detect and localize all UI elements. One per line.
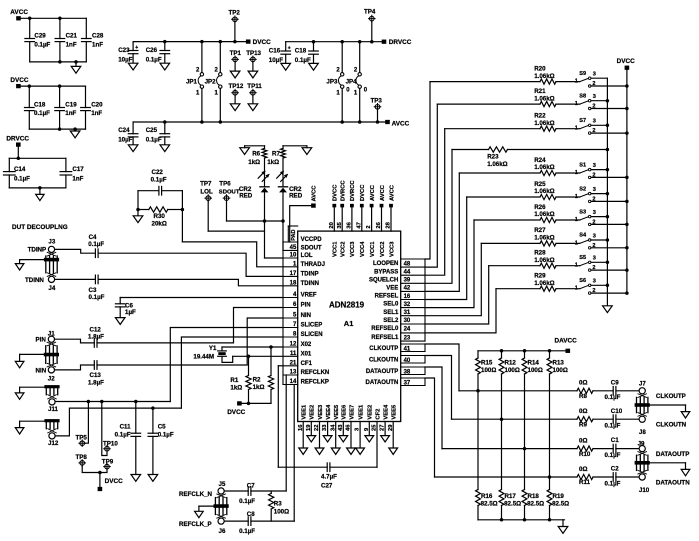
svg-text:0.1µF: 0.1µF (89, 294, 105, 301)
capacitor C6 1uF (119, 298, 121, 304)
ground (75, 62, 77, 67)
switch S2 (580, 194, 588, 197)
capacitor C18 0.1uF (313, 42, 315, 51)
wire bottom rail (30, 61, 87, 63)
svg-text:C28: C28 (92, 33, 104, 40)
resistor R26 1.06k (474, 219, 540, 221)
wire to connector J9 (616, 448, 639, 450)
svg-text:VCCPD: VCCPD (301, 237, 323, 243)
switch S8 (580, 101, 588, 104)
svg-text:0.1µF: 0.1µF (115, 432, 131, 439)
capacitor C18 0.1uF (28, 86, 30, 107)
svg-text:SEL1: SEL1 (383, 310, 399, 316)
wire DATAOUTN row (435, 476, 578, 478)
svg-text:17: 17 (290, 271, 297, 277)
svg-text:VCC2: VCC2 (380, 242, 386, 257)
wire pin fan to R26 (425, 220, 474, 308)
power flag DVRCC / pin 36 VCC3 (350, 204, 354, 208)
svg-text:0.1µF: 0.1µF (158, 432, 174, 439)
svg-text:1.06kΩ: 1.06kΩ (487, 161, 507, 168)
junction dots (28, 84, 32, 88)
svg-text:R28: R28 (534, 250, 546, 257)
svg-text:S3: S3 (579, 209, 586, 215)
svg-text:VCC3: VCC3 (389, 241, 395, 257)
wire DVCC rail (JP section) (133, 41, 246, 43)
resistor R21 1.06k (437, 103, 540, 105)
wire switch common rail to ground (606, 78, 608, 306)
svg-text:0.1µF: 0.1µF (239, 528, 255, 535)
resistor R11 0ohm (577, 474, 593, 479)
svg-text:S5: S5 (579, 255, 586, 261)
svg-text:X01: X01 (301, 351, 312, 357)
svg-text:1: 1 (575, 240, 578, 246)
svg-text:TDINN: TDINN (301, 281, 319, 287)
svg-text:J8: J8 (639, 429, 646, 436)
connector shield with ground (636, 397, 638, 412)
svg-text:3: 3 (593, 72, 596, 78)
capacitor C8 0.1uF (247, 517, 249, 526)
svg-text:1kΩ: 1kΩ (230, 384, 242, 391)
wire CLKOUTP from pin 41 (425, 344, 459, 391)
svg-text:SDOUT: SDOUT (301, 245, 322, 251)
svg-text:TP11: TP11 (247, 83, 262, 90)
svg-text:R6: R6 (252, 151, 260, 158)
svg-text:3: 3 (593, 233, 596, 239)
svg-text:DAVCC: DAVCC (555, 338, 578, 345)
wire X02 row (222, 346, 283, 348)
svg-text:20kΩ: 20kΩ (152, 221, 167, 228)
svg-text:R19: R19 (553, 493, 565, 500)
svg-text:C18: C18 (34, 102, 46, 109)
svg-text:J12: J12 (48, 440, 59, 447)
op-amp U1 ADN2819 body (298, 231, 401, 421)
svg-text:REFSEL1: REFSEL1 (371, 335, 399, 341)
jumper JP2 (219, 42, 221, 73)
ground (74, 129, 76, 131)
capacitor C5 0.1uF (152, 408, 154, 433)
svg-text:RED: RED (239, 193, 253, 200)
svg-text:C4: C4 (89, 234, 97, 241)
svg-text:VEE2: VEE2 (368, 405, 374, 420)
svg-text:DVCC: DVCC (227, 409, 245, 416)
svg-text:SEL0: SEL0 (383, 302, 399, 308)
svg-text:S8: S8 (579, 93, 586, 99)
svg-text:1.8µF: 1.8µF (88, 380, 104, 387)
resistor R13 100 (549, 351, 551, 358)
resistor R24 1.06k (459, 172, 540, 174)
svg-text:DVCC: DVCC (105, 478, 123, 485)
svg-text:0Ω: 0Ω (579, 437, 587, 444)
svg-text:VEE7: VEE7 (349, 405, 355, 420)
svg-text:R25: R25 (534, 181, 546, 188)
svg-text:AVCC: AVCC (392, 120, 410, 127)
wire pin fan to R22 (425, 129, 445, 276)
wire pin fan to R20 (425, 82, 430, 259)
switch S6 (580, 286, 588, 289)
switch S5 (580, 263, 588, 266)
svg-text:R22: R22 (534, 113, 546, 120)
svg-text:R3: R3 (274, 501, 282, 508)
svg-text:R27: R27 (534, 227, 546, 234)
power flag DVCC (decoupling block) (16, 84, 21, 88)
capacitor C21 1nF (59, 18, 61, 38)
svg-text:C3: C3 (89, 287, 97, 294)
svg-text:0.1µF: 0.1µF (239, 498, 255, 505)
resistor R18 82.5 (522, 490, 527, 506)
svg-text:1: 1 (575, 79, 578, 85)
capacitor C16 10uF (285, 42, 287, 51)
jumper JP3 (341, 42, 343, 73)
svg-text:R10: R10 (579, 451, 591, 458)
resistor R8 0ohm (577, 388, 593, 393)
svg-text:82.5Ω: 82.5Ω (481, 501, 498, 508)
connector J10 DATAOUTN (639, 474, 645, 480)
jumper JP1 (201, 42, 203, 73)
resistor R9 0ohm (577, 417, 593, 422)
svg-text:3: 3 (593, 256, 596, 262)
svg-text:REFCLK_N: REFCLK_N (179, 491, 213, 498)
svg-text:1.06kΩ: 1.06kΩ (534, 164, 554, 171)
resistor R2 1k (270, 347, 272, 376)
svg-text:DVCC: DVCC (10, 77, 28, 84)
svg-text:30: 30 (404, 318, 411, 324)
svg-text:C5: C5 (158, 424, 166, 431)
svg-text:23: 23 (404, 335, 411, 341)
svg-text:48: 48 (404, 261, 411, 267)
svg-text:VCC1: VCC1 (370, 241, 376, 257)
svg-text:C14: C14 (14, 166, 26, 173)
svg-text:100Ω: 100Ω (505, 367, 520, 374)
svg-text:R23: R23 (487, 154, 499, 161)
switch S4 (580, 240, 588, 243)
svg-text:100Ω: 100Ω (274, 509, 289, 516)
svg-text:DRVCC: DRVCC (389, 39, 412, 46)
svg-text:JP3: JP3 (326, 78, 338, 85)
svg-text:VCC4: VCC4 (360, 241, 366, 257)
switch S9 (580, 78, 588, 81)
svg-text:42: 42 (404, 286, 411, 292)
svg-text:J11: J11 (48, 406, 59, 413)
svg-text:SEL2: SEL2 (383, 318, 399, 324)
svg-text:C10: C10 (611, 408, 623, 415)
power flag DVCC (crystal bias) (242, 402, 271, 404)
svg-text:VCC1: VCC1 (333, 241, 339, 257)
wire DATAOUTN from pin 37 (425, 378, 435, 477)
svg-text:1nF: 1nF (65, 110, 76, 117)
svg-text:VEE4: VEE4 (326, 404, 332, 420)
wire AVCC to VCCPD (290, 206, 311, 242)
svg-text:1: 1 (575, 263, 578, 269)
svg-text:0Ω: 0Ω (579, 380, 587, 387)
svg-text:NIN: NIN (36, 367, 47, 374)
svg-text:R2: R2 (253, 377, 261, 384)
svg-text:C2: C2 (611, 466, 619, 473)
svg-text:1.06kΩ: 1.06kΩ (534, 95, 554, 102)
svg-text:S6: S6 (579, 278, 586, 284)
resistor R7 1k (282, 146, 284, 149)
svg-text:Y1: Y1 (209, 345, 217, 352)
svg-text:1nF: 1nF (91, 110, 102, 117)
svg-text:1: 1 (575, 217, 578, 223)
svg-text:10µF: 10µF (118, 56, 132, 63)
svg-text:REFSEL0: REFSEL0 (371, 326, 399, 332)
capacitor C14 0.1uF (8, 158, 10, 171)
svg-text:1µF: 1µF (125, 309, 136, 316)
svg-text:0.1µF: 0.1µF (146, 56, 162, 63)
wire C3 to TDINN pin (98, 279, 283, 285)
svg-text:C13: C13 (90, 372, 102, 379)
svg-text:2: 2 (592, 172, 595, 178)
resistor R15 100 (477, 351, 479, 358)
svg-text:DUT DECOUPLNG: DUT DECOUPLNG (12, 224, 68, 231)
svg-text:1: 1 (575, 101, 578, 107)
svg-text:0.1µF: 0.1µF (34, 110, 50, 117)
svg-text:0.1µF: 0.1µF (605, 423, 621, 430)
svg-text:20: 20 (329, 222, 335, 228)
wire pin fan to R28 (425, 266, 489, 324)
svg-text:C27: C27 (321, 482, 333, 489)
svg-text:10µF: 10µF (118, 136, 132, 143)
svg-text:45: 45 (290, 245, 297, 251)
svg-text:R14: R14 (528, 360, 540, 367)
wire right node to THRADJ (181, 191, 183, 242)
svg-text:R21: R21 (534, 88, 546, 95)
svg-text:DRVCC: DRVCC (6, 135, 29, 142)
svg-text:J9: J9 (638, 440, 645, 447)
svg-text:C22: C22 (152, 169, 164, 176)
resistor R30 20k (138, 209, 149, 211)
svg-text:J2: J2 (48, 375, 55, 382)
resistor R10 0ohm (577, 446, 593, 451)
svg-text:21: 21 (290, 360, 297, 366)
capacitor C20 1nF (85, 86, 87, 107)
svg-text:CLKOUTP: CLKOUTP (656, 393, 686, 400)
svg-text:VEE5: VEE5 (392, 404, 398, 420)
wire pin fan to R24 (425, 173, 459, 291)
wire AVCC rail (133, 121, 385, 123)
wire DRVCC stem (17, 147, 19, 159)
svg-text:TP4: TP4 (364, 9, 376, 16)
svg-text:R12: R12 (505, 360, 517, 367)
svg-text:CF1: CF1 (301, 361, 313, 367)
svg-text:1.06kΩ: 1.06kΩ (534, 120, 554, 127)
svg-text:DVCC: DVCC (617, 58, 635, 65)
svg-text:VEE: VEE (386, 286, 398, 292)
svg-text:VEE4: VEE4 (383, 404, 389, 420)
svg-text:82.5Ω: 82.5Ω (504, 501, 521, 508)
svg-text:DATAOUTP: DATAOUTP (366, 369, 398, 375)
svg-text:1.06kΩ: 1.06kΩ (534, 257, 554, 264)
svg-text:DVCC: DVCC (360, 184, 366, 201)
svg-text:TP6: TP6 (219, 180, 231, 187)
wire DATAOUTP from pin 38 (425, 367, 442, 449)
wire CF1 to C27 (278, 365, 283, 367)
svg-text:C7: C7 (247, 482, 255, 489)
svg-text:TP10: TP10 (103, 440, 118, 447)
wire J12 to SLICEN (55, 408, 181, 436)
svg-text:C24: C24 (118, 127, 130, 134)
svg-text:0.1µF: 0.1µF (151, 177, 167, 184)
svg-text:R24: R24 (534, 157, 546, 164)
svg-text:AVCC: AVCC (380, 184, 386, 201)
svg-text:2: 2 (366, 225, 372, 228)
svg-text:TP5: TP5 (76, 434, 88, 441)
svg-text:J6: J6 (219, 528, 226, 535)
left pin ladder (282, 242, 284, 385)
svg-text:39: 39 (404, 278, 411, 284)
power flag AVCC / pin 26 VCC2 (380, 204, 384, 208)
connector J12 with shield/ground (44, 419, 59, 422)
LED CR2 (LOL) red (258, 172, 268, 182)
svg-text:R16: R16 (481, 493, 493, 500)
svg-text:C23: C23 (118, 47, 130, 54)
svg-text:REFCLKP: REFCLKP (301, 380, 329, 386)
svg-text:DVRCC: DVRCC (341, 180, 347, 201)
svg-text:C25: C25 (146, 127, 158, 134)
connector shield J3/J4 with ground (45, 256, 47, 273)
svg-text:0.1µF: 0.1µF (605, 394, 621, 401)
svg-text:4.7µF: 4.7µF (321, 473, 337, 480)
resistor R3 100 (270, 491, 272, 493)
svg-text:SDOUT: SDOUT (219, 189, 240, 195)
svg-text:1.06kΩ: 1.06kΩ (534, 280, 554, 287)
svg-text:C16: C16 (269, 48, 281, 55)
capacitor C28 1nF (85, 18, 87, 38)
svg-text:16: 16 (404, 294, 411, 300)
svg-text:2: 2 (592, 265, 595, 271)
svg-text:LOL: LOL (301, 253, 313, 259)
wire J2 to C13 (55, 365, 95, 370)
svg-text:R8: R8 (579, 393, 587, 400)
svg-text:R15: R15 (481, 360, 493, 367)
svg-text:DATAOUTP: DATAOUTP (656, 451, 689, 458)
power flag AVCC / pin 2 VCC1 (370, 204, 374, 208)
capacitor C25 0.1uF (164, 122, 166, 134)
svg-text:0.1µF: 0.1µF (14, 175, 30, 182)
wire DVCC rail (21, 85, 86, 87)
svg-text:J10: J10 (639, 487, 650, 494)
svg-text:31: 31 (404, 310, 411, 316)
wire J11 to SLICEP (55, 401, 170, 403)
svg-text:VEE1: VEE1 (302, 404, 308, 420)
svg-text:2: 2 (592, 243, 595, 249)
wire X01 row (233, 355, 283, 357)
resistor R16 82.5 (476, 490, 481, 506)
capacitor C23 10uF (132, 42, 134, 51)
svg-text:12: 12 (290, 342, 297, 348)
connector J9 DATAOUTP (639, 446, 645, 452)
svg-text:35: 35 (337, 221, 343, 228)
svg-text:2: 2 (592, 196, 595, 202)
svg-text:0.1µF: 0.1µF (605, 480, 621, 487)
wire TP7 to LED column (208, 230, 264, 232)
svg-text:JP2: JP2 (205, 78, 217, 85)
svg-text:J3: J3 (48, 239, 55, 246)
svg-text:2: 2 (592, 288, 595, 294)
svg-text:VEE2: VEE2 (310, 405, 316, 420)
wire C13 to NIN pin (97, 318, 283, 365)
wire DAVCC rail (478, 350, 566, 352)
wire DATAOUTP row (442, 448, 577, 450)
svg-text:14: 14 (290, 379, 297, 385)
svg-text:PIN: PIN (301, 303, 311, 309)
capacitor C27 4.7uF (326, 463, 328, 472)
svg-text:VEE3: VEE3 (318, 404, 324, 420)
wire DRVCC rail (286, 41, 382, 43)
wire termination ground rail (478, 519, 565, 521)
svg-text:C18: C18 (295, 48, 307, 55)
svg-text:DATAOUTN: DATAOUTN (656, 479, 690, 486)
svg-text:3: 3 (593, 187, 596, 193)
svg-text:S4: S4 (579, 233, 587, 239)
svg-text:0.1µF: 0.1µF (146, 136, 162, 143)
capacitor C10 0.1uF (612, 415, 614, 424)
svg-text:1kΩ: 1kΩ (248, 159, 260, 166)
svg-text:LOL: LOL (200, 188, 213, 195)
svg-text:1.8µF: 1.8µF (88, 334, 104, 341)
pin PAD (VCCPD) box (287, 226, 289, 242)
svg-text:3: 3 (593, 94, 596, 100)
svg-text:AVCC: AVCC (370, 184, 376, 201)
wire AVCC rail (21, 17, 87, 19)
svg-text:VEE6: VEE6 (342, 404, 348, 420)
capacitor C29 0.1uF (29, 18, 31, 38)
svg-text:TDINN: TDINN (25, 277, 44, 284)
power flag AVCC / pin 28 VCC3 (389, 204, 393, 208)
capacitor C9 0.1uF (612, 387, 614, 396)
svg-text:NIN: NIN (301, 313, 311, 319)
svg-text:28: 28 (386, 221, 392, 228)
svg-text:R1: R1 (230, 377, 238, 384)
wire C27 to CF2 pin 25 (330, 466, 377, 468)
right ladder closures (424, 259, 426, 341)
capacitor C7 0.1uF (247, 487, 249, 496)
wire J6 to C8 (224, 520, 248, 522)
resistor R12 100 (501, 351, 503, 358)
svg-text:1: 1 (575, 170, 578, 176)
svg-text:1.06kΩ: 1.06kΩ (534, 211, 554, 218)
capacitor C3 0.1uF (94, 275, 96, 284)
wire pin fan to R27 (425, 243, 481, 315)
svg-text:PIN: PIN (36, 337, 47, 344)
resistor R28 1.06k (489, 265, 540, 267)
power flag DVCC / pin 20 VCC1 (332, 204, 336, 208)
wire CLKOUTP row (459, 390, 577, 392)
wire J3 to C4 (55, 249, 96, 253)
svg-text:TDINP: TDINP (28, 247, 47, 254)
power flag DRVCC (decoupling block) (16, 142, 21, 146)
capacitor C11 0.1uF (135, 402, 137, 434)
svg-text:VCC3: VCC3 (350, 241, 356, 257)
svg-text:SLICEP: SLICEP (301, 323, 323, 329)
svg-text:100Ω: 100Ω (553, 367, 568, 374)
svg-text:0.1µF: 0.1µF (34, 41, 50, 48)
svg-text:1.06kΩ: 1.06kΩ (534, 73, 554, 80)
svg-text:REFCLK_P: REFCLK_P (179, 521, 212, 528)
wire C7 to REFCLKN pin (251, 490, 286, 492)
svg-text:R9: R9 (579, 421, 587, 428)
wire J5 to C7 (224, 490, 248, 492)
svg-text:TP13: TP13 (246, 50, 261, 57)
wire pin fan to R25 (425, 197, 467, 300)
svg-text:DVCC: DVCC (253, 39, 271, 46)
svg-text:AVCC: AVCC (10, 9, 28, 16)
svg-text:S1: S1 (579, 162, 586, 168)
svg-text:DVRCC: DVRCC (350, 180, 356, 201)
svg-text:0Ω: 0Ω (579, 408, 587, 415)
resistor R23 1.06k (452, 149, 489, 151)
svg-text:R11: R11 (579, 479, 591, 486)
